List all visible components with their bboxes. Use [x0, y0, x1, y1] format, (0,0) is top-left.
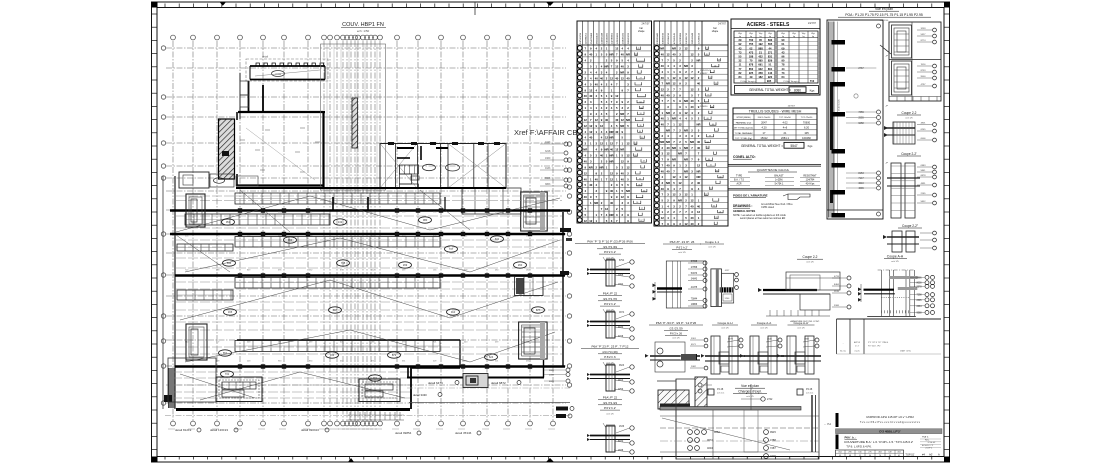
- svg-text:/23./73.(49): /23./73.(49): [602, 350, 617, 354]
- svg-text:Coupe 2-2’: Coupe 2-2’: [901, 152, 917, 156]
- plan bottom tick row: [349, 412, 351, 420]
- plan right lower stair: [519, 322, 548, 359]
- big bottom detail circles right group: [764, 430, 769, 435]
- plan right leader circles: [564, 142, 568, 146]
- plan horizontal grid lines: [166, 47, 566, 49]
- svg-text:TOTAL PANNEAU: TOTAL PANNEAU: [735, 132, 753, 135]
- svg-text:12: 12: [615, 47, 619, 51]
- svg-text:NR: NR: [626, 189, 630, 193]
- svg-text:12: 12: [697, 210, 701, 214]
- svg-text:354278498: 354278498: [591, 32, 593, 44]
- svg-text:12: 12: [672, 175, 676, 179]
- sheet frame outer border: [152, 2, 950, 462]
- svg-text:7287: 7287: [770, 446, 776, 450]
- svg-text:COUV. HBP1 FN: COUV. HBP1 FN: [342, 22, 384, 28]
- svg-text:4004: 4004: [707, 446, 713, 450]
- svg-text:Vue en plan: Vue en plan: [741, 384, 759, 388]
- plan bottom-right boundary: [407, 377, 544, 379]
- svg-text:710: 710: [810, 79, 815, 83]
- svg-text:12: 12: [600, 124, 604, 128]
- svg-text:P.6’2 h.26: P.6’2 h.26: [670, 332, 683, 336]
- svg-text:17: 17: [641, 208, 643, 210]
- svg-text:UNIPROD.APH 115.0P’.L6.v’’.LPR: UNIPROD.APH 115.0P’.L6.v’’.LPR2: [866, 415, 914, 419]
- svg-text:651: 651: [223, 351, 228, 355]
- svg-text:12: 12: [690, 76, 694, 80]
- svg-text:242786801: 242786801: [612, 32, 614, 44]
- svg-text:8080: 8080: [794, 88, 801, 92]
- svg-text:740164005: 740164005: [607, 32, 609, 44]
- plan bottom-right small block: [463, 374, 488, 388]
- svg-text:7359: 7359: [858, 111, 864, 114]
- svg-text:18A7 ’474s: 18A7 ’474s: [900, 350, 912, 353]
- svg-text:12: 12: [666, 152, 670, 156]
- svg-text:7147: 7147: [858, 177, 864, 180]
- svg-text:40: 40: [697, 181, 701, 185]
- svg-text:4797: 4797: [921, 84, 927, 86]
- svg-text:080: 080: [423, 218, 428, 222]
- svg-text:19: 19: [643, 161, 645, 163]
- svg-text:30: 30: [869, 455, 871, 457]
- svg-text:Wgt: Wgt: [768, 32, 772, 35]
- svg-text:5841: 5841: [921, 170, 927, 172]
- svg-text:NR: NR: [672, 47, 676, 51]
- right zone extra marks: [599, 0, 601, 1]
- svg-text:12: 12: [626, 142, 630, 146]
- svg-text:4.20: 4.20: [761, 126, 767, 130]
- svg-text:CURB: CURB: [275, 74, 282, 76]
- svg-text:25.40 14.25: 25.40 14.25: [839, 99, 841, 111]
- svg-text:470952145: 470952145: [674, 32, 676, 44]
- svg-text:57865: 57865: [691, 261, 698, 263]
- svg-text:12: 12: [610, 171, 614, 175]
- svg-text:60: 60: [712, 124, 714, 126]
- svg-text:12: 12: [626, 154, 630, 158]
- svg-text:P.6’2 h.2’: P.6’2 h.2’: [676, 246, 688, 250]
- svg-text:TOT. /25x/50: TOT. /25x/50: [801, 117, 813, 119]
- svg-text:831: 831: [768, 55, 773, 59]
- svg-text:333: 333: [330, 353, 335, 357]
- svg-text:NR: NR: [666, 82, 670, 86]
- svg-text:ech 1/5: ech 1/5: [721, 328, 729, 330]
- svg-text:P6A’ ’P’ 23 P’. 23 P’. 7’ P’12: P6A’ ’P’ 23 P’. 23 P’. 7’ P’12: [592, 345, 629, 349]
- svg-text:2838: 2838: [618, 450, 624, 452]
- svg-text:12: 12: [684, 175, 688, 179]
- svg-text:8153: 8153: [858, 172, 864, 175]
- svg-text:ech 1/5: ech 1/5: [672, 338, 680, 340]
- mid detail right piece: [711, 269, 722, 307]
- sheet frame inner border: [157, 8, 944, 457]
- svg-text:12: 12: [600, 142, 604, 146]
- svg-text:801: 801: [768, 67, 773, 71]
- big bottom detail slab: [660, 407, 801, 411]
- svg-text:9588: 9588: [916, 313, 922, 315]
- svg-text:NR: NR: [666, 140, 670, 144]
- svg-text:922: 922: [758, 67, 763, 71]
- title block section 2: [836, 435, 839, 450]
- svg-text:01: 01: [898, 455, 900, 457]
- svg-text:40: 40: [690, 216, 694, 220]
- svg-text:detail 136193: detail 136193: [210, 428, 228, 432]
- svg-text:453: 453: [897, 452, 900, 454]
- svg-text:TYPE: TYPE: [736, 175, 743, 178]
- svg-text:105: 105: [804, 131, 809, 135]
- mid detail body: [666, 261, 706, 308]
- treillis soudes box: [733, 108, 817, 140]
- svg-text:P6A’ /P’ 22: P6A’ /P’ 22: [603, 396, 618, 400]
- svg-text:99: 99: [709, 136, 711, 138]
- svg-text:/23./73./49: /23./73./49: [603, 245, 618, 249]
- svg-text:40: 40: [661, 187, 665, 191]
- svg-text:40: 40: [666, 146, 670, 150]
- svg-text:2081.1: 2081.1: [781, 136, 789, 140]
- svg-text:98: 98: [705, 194, 707, 196]
- svg-text:12: 12: [672, 76, 676, 80]
- svg-text:9915: 9915: [770, 430, 776, 434]
- svg-text:P6A’ b.: P6A’ b.: [922, 436, 929, 439]
- svg-text:128059826: 128059826: [617, 32, 619, 44]
- svg-text:40: 40: [697, 140, 701, 144]
- elevation labels and circles: [877, 24, 881, 28]
- svg-text:36: 36: [640, 125, 642, 127]
- svg-text:Kgs: Kgs: [808, 144, 813, 148]
- svg-text:seront places et fixes selon l: seront places et fixes selon les normes …: [740, 217, 785, 220]
- svg-text:kg: kg: [750, 36, 752, 38]
- svg-text:ech 1/5: ech 1/5: [806, 262, 814, 264]
- big bottom detail upper circles: [761, 397, 765, 401]
- svg-text:12: 12: [615, 148, 619, 152]
- svg-text:71: 71: [706, 48, 708, 50]
- svg-text:59: 59: [711, 106, 713, 108]
- svg-text:NR: NR: [620, 70, 624, 74]
- frame fold mark: [474, 2, 476, 15]
- svg-text:’2.OP 1: ’2.OP 1: [925, 448, 933, 450]
- svg-text:ech 1/5: ech 1/5: [905, 118, 913, 120]
- svg-text:40: 40: [661, 64, 665, 68]
- plan interior column ticks: [238, 208, 242, 212]
- svg-text:ECH.D.1 ’P: ECH.D.1 ’P: [922, 445, 934, 447]
- svg-text:4788: 4788: [770, 438, 776, 442]
- svg-text:73: 73: [707, 95, 709, 97]
- svg-text:623285884: 623285884: [680, 32, 682, 44]
- svg-text:40: 40: [605, 118, 609, 122]
- svg-text:APPUI: APPUI: [854, 341, 860, 344]
- svg-text:260: 260: [518, 263, 523, 267]
- svg-text:ech 1/5: ech 1/5: [746, 396, 754, 398]
- svg-text:834: 834: [227, 261, 232, 265]
- svg-text:57059640: 57059640: [700, 103, 711, 105]
- svg-text:COUVERTURE B.A.’ L.6.’ D’4P L: COUVERTURE B.A.’ L.6.’ D’4P L.1.5.’ T.P.…: [844, 440, 914, 444]
- svg-text:6.20: 6.20: [804, 126, 810, 130]
- plan left rooms row: [179, 172, 209, 188]
- svg-text:90: 90: [889, 455, 891, 457]
- svg-text:A: A: [938, 453, 940, 457]
- svg-text:100460: 100460: [802, 136, 811, 140]
- svg-text:1×25M.: 1×25M.: [775, 179, 783, 182]
- svg-text:677: 677: [536, 308, 541, 312]
- svg-text:29: 29: [718, 60, 720, 62]
- svg-text:247510799: 247510799: [580, 32, 582, 44]
- svg-text:54: 54: [707, 141, 709, 143]
- svg-text:68: 68: [707, 118, 709, 120]
- plan bottom-right leader circles: [566, 368, 570, 372]
- frame centre marks: [546, 2, 554, 6]
- svg-text:4991: 4991: [921, 183, 927, 185]
- svg-text:40: 40: [661, 117, 665, 121]
- right detail 5 (big junction): [878, 269, 915, 271]
- svg-text:225: 225: [749, 71, 754, 75]
- svg-text:586923226: 586923226: [628, 32, 630, 44]
- big bottom detail small squares: [708, 389, 714, 395]
- svg-text:40: 40: [697, 82, 701, 86]
- svg-text:detail 81219: detail 81219: [175, 428, 192, 432]
- svg-text:68: 68: [719, 176, 721, 178]
- big bottom detail hatched block 2: [695, 377, 707, 408]
- svg-text:90: 90: [640, 107, 642, 109]
- svg-text:3308: 3308: [834, 305, 840, 307]
- svg-text:2082: 2082: [691, 366, 697, 368]
- plan secondary beam lines: [176, 195, 562, 197]
- svg-text:40: 40: [595, 76, 599, 80]
- svg-text:40: 40: [697, 204, 701, 208]
- svg-text:5×754.1: 5×754.1: [775, 183, 784, 186]
- svg-text:12: 12: [589, 124, 593, 128]
- svg-text:Pl. Bet. Tot wgt =: Pl. Bet. Tot wgt =: [783, 80, 799, 83]
- svg-text:6878: 6878: [921, 175, 927, 177]
- plan bottom-middle room: [359, 379, 400, 402]
- plan walls below curb: [248, 81, 250, 112]
- svg-text:134/784: 134/784: [806, 179, 815, 182]
- svg-text:PANNEAU (m2): PANNEAU (m2): [736, 121, 752, 124]
- svg-text:45: 45: [637, 48, 639, 50]
- svg-text:↗: ↗: [885, 54, 888, 58]
- svg-text:ACR: ACR: [736, 183, 741, 186]
- svg-text:NR: NR: [589, 165, 593, 169]
- svg-text:74: 74: [879, 455, 881, 457]
- svg-text:DRAWINGS :: DRAWINGS :: [733, 204, 752, 208]
- svg-text:NR: NR: [620, 148, 624, 152]
- svg-text:165820: 165820: [700, 106, 708, 108]
- plan left boundary wall: [162, 176, 164, 409]
- svg-text:12: 12: [615, 65, 619, 69]
- svg-text:27858: 27858: [691, 267, 698, 269]
- svg-text:0983: 0983: [921, 165, 927, 167]
- svg-text:67: 67: [640, 220, 642, 222]
- svg-text:P.6’2 h.2’: P.6’2 h.2’: [604, 250, 616, 254]
- svg-text:192: 192: [758, 42, 763, 46]
- svg-text:P.6’2 h.2’: P.6’2 h.2’: [604, 406, 616, 410]
- svg-text:414 Kps: 414 Kps: [806, 183, 816, 186]
- svg-text:3301: 3301: [691, 338, 697, 340]
- svg-text:Wgt: Wgt: [792, 32, 796, 35]
- svg-text:Wgt: Wgt: [759, 32, 763, 35]
- svg-text:12: 12: [605, 136, 609, 140]
- svg-text:12: 12: [610, 76, 614, 80]
- svg-text:143: 143: [768, 71, 773, 75]
- svg-text:702: 702: [749, 38, 754, 42]
- svg-text:2595: 2595: [916, 300, 922, 302]
- rule lines: [728, 163, 821, 165]
- svg-text:P.6’2 h.6: P.6’2 h.6: [604, 355, 616, 359]
- svg-text:40: 40: [610, 189, 614, 193]
- svg-text:kg: kg: [812, 36, 814, 38]
- svg-text:ech 1/5: ech 1/5: [891, 261, 899, 263]
- svg-text:244935348: 244935348: [602, 32, 604, 44]
- svg-text:9930: 9930: [618, 327, 624, 329]
- svg-text:118384251: 118384251: [585, 32, 587, 44]
- svg-text:NR: NR: [684, 64, 688, 68]
- svg-text:995: 995: [767, 79, 772, 83]
- svg-text:40: 40: [595, 82, 599, 86]
- svg-text:8794: 8794: [619, 260, 625, 262]
- room block door jambs: [397, 147, 414, 149]
- svg-text:895: 895: [758, 59, 763, 63]
- svg-text:516: 516: [858, 452, 861, 454]
- svg-text:12: 12: [589, 219, 593, 223]
- svg-text:0097: 0097: [549, 375, 555, 377]
- plan diagonal leaders: [176, 196, 310, 232]
- svg-text:ech 1/5: ech 1/5: [606, 413, 614, 415]
- svg-text:D’2 4BBL.LP’2’: D’2 4BBL.LP’2’: [879, 430, 901, 434]
- svg-text:Coupe 2-2”: Coupe 2-2”: [902, 224, 918, 228]
- plan bottom right step boundary: [412, 367, 460, 369]
- bottom row detail 1 body: [650, 355, 700, 357]
- svg-text:40: 40: [589, 183, 593, 187]
- svg-text:35: 35: [706, 54, 708, 56]
- svg-text:3259: 3259: [921, 28, 927, 30]
- elevation outer box: [827, 20, 883, 219]
- svg-text:86: 86: [708, 159, 710, 161]
- svg-text:Pl. Bet. Tot wgt =: Pl. Bet. Tot wgt =: [740, 80, 756, 83]
- svg-text:Coupe 1-1: Coupe 1-1: [705, 240, 719, 244]
- svg-text:360: 360: [288, 238, 293, 242]
- big bottom detail inner column: [744, 410, 758, 452]
- svg-text:GENERAL TOTAL WEIGHT =: GENERAL TOTAL WEIGHT =: [749, 88, 791, 92]
- svg-text:NR: NR: [609, 213, 613, 217]
- frame ruler ticks bottom: [164, 457, 166, 460]
- svg-text:8970: 8970: [618, 441, 624, 443]
- frame ruler ticks right: [944, 13, 950, 15]
- title block bottom strip: [836, 450, 904, 456]
- svg-text:204505331: 204505331: [622, 32, 624, 44]
- svg-text:65: 65: [716, 171, 718, 173]
- svg-text:75844: 75844: [691, 299, 698, 301]
- svg-text:shape: shape: [638, 30, 645, 33]
- svg-text:8484: 8484: [834, 284, 840, 286]
- svg-text:0913: 0913: [618, 380, 624, 382]
- svg-text:87: 87: [643, 190, 645, 192]
- svg-text:CM54 dated: CM54 dated: [761, 206, 775, 209]
- svg-text:9805: 9805: [549, 370, 555, 372]
- svg-text:shape: shape: [712, 30, 719, 33]
- svg-text:667: 667: [333, 308, 338, 312]
- svg-text:8908: 8908: [545, 177, 551, 180]
- svg-text:829: 829: [768, 59, 773, 63]
- svg-text:NR: NR: [660, 47, 664, 51]
- svg-text:40: 40: [666, 163, 670, 167]
- svg-text:02: 02: [714, 65, 716, 67]
- svg-text:P2 ’520’. /P2: P2 ’520’. /P2: [868, 346, 881, 348]
- svg-text:275: 275: [868, 452, 871, 454]
- svg-text:12: 12: [621, 76, 625, 80]
- svg-text:2047: 2047: [761, 120, 767, 124]
- svg-text:NR: NR: [678, 152, 682, 156]
- svg-text:NR: NR: [684, 128, 688, 132]
- svg-text:kg: kg: [793, 36, 795, 38]
- plan top curb structure: [246, 59, 328, 81]
- svg-text:40: 40: [589, 136, 593, 140]
- svg-text:565: 565: [768, 42, 773, 46]
- aciers right sub-table: [777, 31, 818, 83]
- svg-text:051: 051: [226, 220, 231, 224]
- svg-text:/23./73./23: /23./73./23: [603, 401, 618, 405]
- svg-text:4733: 4733: [834, 276, 840, 278]
- svg-text:2742: 2742: [767, 398, 773, 401]
- svg-text:detail 99854: detail 99854: [395, 431, 412, 435]
- svg-text:40: 40: [641, 137, 643, 139]
- svg-text:12: 12: [584, 118, 588, 122]
- svg-text:NR: NR: [672, 117, 676, 121]
- svg-text:ech 1m: ech 1m: [806, 393, 813, 395]
- svg-text:Coupe A-A: Coupe A-A: [757, 321, 772, 325]
- elevation dark strip segments: [830, 82, 833, 150]
- svg-text:731: 731: [225, 372, 230, 376]
- svg-text:40: 40: [697, 146, 701, 150]
- svg-text:detail 6474: detail 6474: [428, 381, 443, 385]
- svg-text:NR: NR: [620, 124, 624, 128]
- svg-text:2555: 2555: [858, 117, 864, 120]
- svg-text:NR: NR: [696, 123, 700, 127]
- svg-text:40: 40: [666, 93, 670, 97]
- svg-text:RESISTANT: RESISTANT: [803, 175, 817, 178]
- svg-text:NR: NR: [678, 198, 682, 202]
- svg-text:P6A’. b. :: P6A’. b. :: [845, 436, 857, 440]
- svg-text:084124118: 084124118: [596, 32, 598, 44]
- svg-text:12: 12: [690, 52, 694, 56]
- plan right edge black blobs: [560, 228, 571, 232]
- svg-text:6773: 6773: [728, 339, 734, 341]
- svg-text:ech 1/5: ech 1/5: [760, 328, 768, 330]
- svg-text:50: 50: [640, 113, 642, 115]
- svg-text:ech: 1/50: ech: 1/50: [357, 29, 370, 33]
- svg-text:40: 40: [589, 94, 593, 98]
- svg-text:136959440: 136959440: [657, 32, 659, 44]
- svg-text:40: 40: [600, 154, 604, 158]
- svg-text:CONEL ALTO:: CONEL ALTO:: [733, 155, 756, 159]
- svg-text:0756: 0756: [618, 389, 624, 391]
- svg-text:12: 12: [589, 130, 593, 134]
- svg-text:12: 12: [672, 193, 676, 197]
- svg-text:detail 990916: detail 990916: [301, 428, 319, 432]
- svg-text:737: 737: [449, 247, 454, 251]
- svg-text:24/7/07: 24/7/07: [788, 106, 796, 108]
- svg-text:463: 463: [878, 452, 881, 454]
- svg-text:NR: NR: [666, 111, 670, 115]
- svg-text:40: 40: [661, 169, 665, 173]
- svg-text:ech 1/5: ech 1/5: [678, 252, 686, 254]
- svg-text:40: 40: [610, 148, 614, 152]
- big bottom detail frame lines: [675, 379, 677, 459]
- svg-text:40: 40: [600, 76, 604, 80]
- svg-text:NR: NR: [690, 140, 694, 144]
- svg-text:NR: NR: [696, 169, 700, 173]
- svg-text:ACIERS - STEELS: ACIERS - STEELS: [747, 22, 790, 28]
- svg-text:Wgt: Wgt: [738, 32, 742, 35]
- svg-text:12: 12: [859, 455, 861, 457]
- svg-text:010: 010: [451, 310, 456, 314]
- svg-text:182: 182: [758, 75, 763, 79]
- svg-text:54973: 54973: [691, 273, 698, 275]
- big bottom detail outer: [676, 379, 819, 459]
